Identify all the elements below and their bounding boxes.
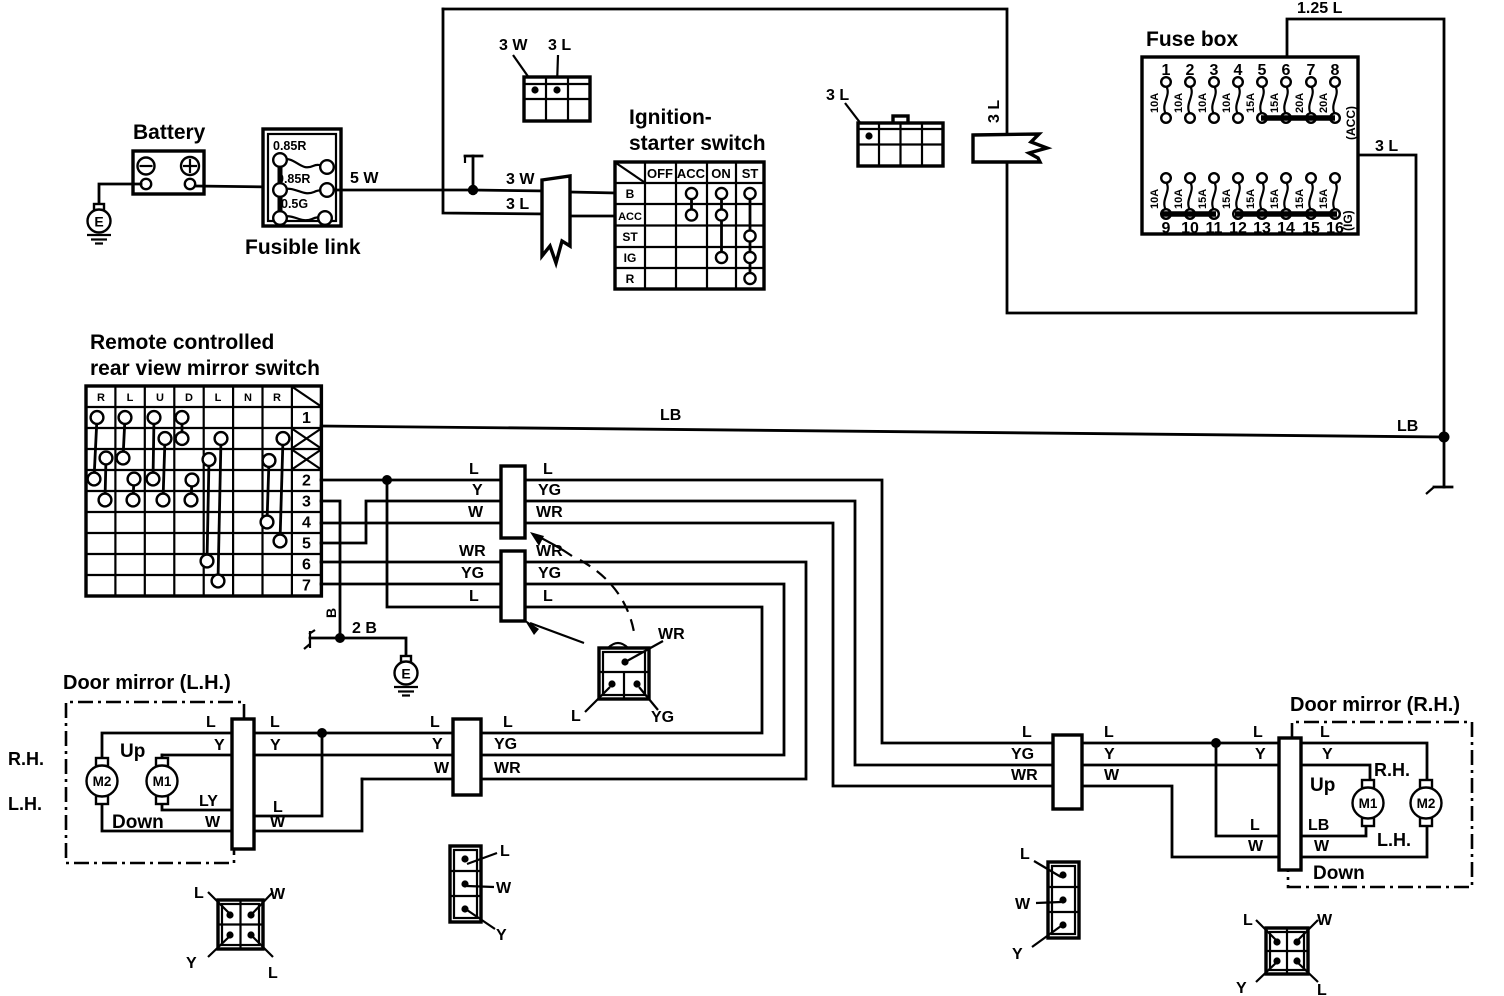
remote controlled rear view mirror switch bbox=[86, 331, 321, 596]
svg-text:Y: Y bbox=[1255, 746, 1266, 763]
motor M2 LH bbox=[87, 758, 118, 804]
svg-text:W: W bbox=[1317, 912, 1333, 929]
svg-text:10A: 10A bbox=[1149, 189, 1161, 209]
svg-text:9: 9 bbox=[1162, 220, 1171, 237]
svg-text:rear view mirror switch: rear view mirror switch bbox=[90, 357, 320, 380]
svg-text:LB: LB bbox=[660, 407, 681, 424]
svg-text:Y: Y bbox=[472, 482, 483, 499]
svg-text:YG: YG bbox=[538, 482, 561, 499]
svg-text:3 W: 3 W bbox=[499, 37, 528, 54]
annotation arrow to lower connector bbox=[524, 619, 584, 643]
wire 1.25L bbox=[1287, 0, 1444, 432]
svg-text:3 L: 3 L bbox=[826, 87, 849, 104]
svg-text:Y: Y bbox=[270, 737, 281, 754]
svg-text:L: L bbox=[270, 714, 280, 731]
door mirror LH enclosure bbox=[8, 672, 244, 863]
svg-text:20A: 20A bbox=[1294, 93, 1306, 113]
svg-text:L: L bbox=[469, 588, 479, 605]
wire battery positive to fusible link bbox=[196, 186, 272, 187]
labels Up/Down RH bbox=[1310, 775, 1365, 884]
svg-text:ON: ON bbox=[711, 166, 731, 181]
svg-text:15: 15 bbox=[1302, 220, 1320, 237]
svg-text:L: L bbox=[1020, 846, 1030, 863]
svg-text:15A: 15A bbox=[1245, 93, 1257, 113]
wire L run to RH mirror bbox=[525, 461, 1427, 780]
junction 5W/3W bbox=[468, 185, 478, 195]
svg-text:L: L bbox=[127, 392, 134, 404]
terminator (to body harness) bbox=[1426, 437, 1452, 494]
connector face view RH door L/W/Y/L bbox=[1236, 912, 1333, 996]
wire YG pin7 bbox=[321, 565, 501, 584]
fuse box bbox=[1142, 28, 1358, 237]
wire battery negative to ground bbox=[99, 184, 141, 204]
svg-text:1.25 L: 1.25 L bbox=[1297, 0, 1343, 17]
ground E (switch) bbox=[394, 656, 418, 696]
svg-text:LB: LB bbox=[1397, 418, 1418, 435]
wire 5W bbox=[334, 170, 473, 190]
wire 3L from top bus bbox=[443, 9, 548, 214]
svg-text:L: L bbox=[194, 885, 204, 902]
wire Y M1 LH up bbox=[162, 714, 225, 760]
svg-text:L: L bbox=[543, 461, 553, 478]
annotation arrow to upper connector bbox=[530, 532, 572, 556]
motor M1 LH bbox=[147, 758, 178, 804]
wire L pin2 (to both connectors) bbox=[321, 461, 501, 607]
svg-text:OFF: OFF bbox=[647, 166, 673, 181]
wire L run to LH mirror bbox=[102, 588, 762, 758]
ignition-starter switch bbox=[615, 106, 766, 289]
labels RH bar right bbox=[1308, 724, 1333, 855]
connector switch lower bbox=[501, 551, 525, 621]
svg-text:M2: M2 bbox=[1417, 796, 1436, 811]
svg-text:ACC: ACC bbox=[677, 166, 706, 181]
connector 6-pin 3W/3L bbox=[499, 37, 590, 121]
svg-text:12: 12 bbox=[1229, 220, 1247, 237]
svg-text:ST: ST bbox=[622, 230, 638, 244]
svg-text:Y: Y bbox=[432, 736, 443, 753]
connector mid-bottom inline bbox=[1053, 735, 1082, 809]
svg-text:14: 14 bbox=[1277, 220, 1295, 237]
svg-text:R: R bbox=[626, 272, 635, 286]
tap stub bbox=[465, 156, 482, 190]
svg-text:Up: Up bbox=[120, 741, 145, 762]
svg-text:3 L: 3 L bbox=[548, 37, 571, 54]
svg-text:15A: 15A bbox=[1269, 93, 1281, 113]
svg-text:Down: Down bbox=[1313, 863, 1365, 884]
svg-text:E: E bbox=[94, 214, 103, 230]
wire 3W bbox=[473, 171, 548, 191]
svg-text:2 B: 2 B bbox=[352, 620, 377, 637]
wire WR run to RH mirror bbox=[525, 504, 1427, 857]
svg-text:4: 4 bbox=[302, 515, 311, 532]
svg-text:E: E bbox=[401, 666, 410, 682]
svg-text:L: L bbox=[571, 708, 581, 725]
svg-text:3 W: 3 W bbox=[506, 171, 535, 188]
svg-text:Door mirror (L.H.): Door mirror (L.H.) bbox=[63, 672, 231, 694]
svg-text:15A: 15A bbox=[1245, 189, 1257, 209]
svg-text:ACC: ACC bbox=[618, 211, 642, 223]
svg-text:Y: Y bbox=[186, 955, 197, 972]
svg-text:11: 11 bbox=[1206, 220, 1223, 237]
svg-text:Y: Y bbox=[1236, 980, 1247, 996]
svg-text:10A: 10A bbox=[1149, 93, 1161, 113]
junction L at RH mirror bbox=[1211, 738, 1366, 836]
svg-text:Y: Y bbox=[1322, 746, 1333, 763]
svg-text:YG: YG bbox=[651, 709, 674, 726]
svg-text:W: W bbox=[1248, 838, 1264, 855]
wire W LH right jog bbox=[254, 779, 362, 831]
svg-text:Battery: Battery bbox=[133, 121, 206, 144]
svg-text:N: N bbox=[244, 392, 252, 404]
svg-text:R: R bbox=[97, 392, 105, 404]
fusible link bbox=[245, 129, 361, 259]
svg-text:L: L bbox=[503, 714, 513, 731]
svg-text:W: W bbox=[434, 760, 450, 777]
svg-text:15A: 15A bbox=[1318, 189, 1330, 209]
svg-text:Y: Y bbox=[496, 927, 507, 944]
svg-text:5: 5 bbox=[302, 536, 311, 553]
svg-text:Door mirror (R.H.): Door mirror (R.H.) bbox=[1290, 694, 1460, 716]
svg-text:Y: Y bbox=[214, 737, 225, 754]
connector RH mirror bar bbox=[1279, 738, 1301, 870]
connector face view LH mirror L/W/Y bbox=[450, 843, 512, 944]
svg-text:L: L bbox=[430, 714, 440, 731]
svg-text:L: L bbox=[273, 799, 283, 816]
connector pass-through (harness) bbox=[542, 176, 570, 263]
svg-text:WR: WR bbox=[494, 760, 521, 777]
svg-text:M2: M2 bbox=[93, 774, 112, 789]
svg-text:L: L bbox=[1317, 982, 1327, 996]
svg-text:W: W bbox=[205, 814, 221, 831]
svg-text:M1: M1 bbox=[1359, 796, 1378, 811]
svg-text:1: 1 bbox=[302, 410, 311, 427]
svg-text:10A: 10A bbox=[1173, 93, 1185, 113]
wire WR run to LH mirror bbox=[362, 543, 806, 779]
labels RH bar left bbox=[1248, 724, 1266, 855]
wire LY M1 LH down bbox=[162, 793, 232, 810]
wire W M2 LH down bbox=[102, 802, 232, 831]
svg-text:WR: WR bbox=[536, 504, 563, 521]
labels Up/Down LH bbox=[112, 741, 164, 833]
wire 3L fuse box feed bbox=[1007, 119, 1416, 313]
svg-text:L: L bbox=[215, 392, 222, 404]
svg-text:L: L bbox=[543, 588, 553, 605]
svg-text:IG: IG bbox=[624, 251, 637, 265]
motor M2 RH bbox=[1411, 780, 1442, 826]
svg-text:3 L: 3 L bbox=[506, 196, 529, 213]
svg-text:L: L bbox=[1104, 724, 1114, 741]
svg-text:20A: 20A bbox=[1318, 93, 1330, 113]
wire L second LH bbox=[254, 714, 327, 816]
wire top bus to 3L connector bbox=[443, 9, 1007, 134]
svg-text:ST: ST bbox=[742, 166, 759, 181]
wire B pin3 to ground bbox=[304, 501, 406, 656]
svg-text:2: 2 bbox=[302, 473, 311, 490]
svg-text:W: W bbox=[468, 504, 484, 521]
svg-text:Ignition-: Ignition- bbox=[629, 106, 712, 129]
svg-text:Fusible link: Fusible link bbox=[245, 236, 361, 259]
svg-text:L: L bbox=[1250, 817, 1260, 834]
svg-text:WR: WR bbox=[459, 543, 486, 560]
svg-text:10A: 10A bbox=[1221, 93, 1233, 113]
svg-text:W: W bbox=[270, 886, 286, 903]
wire YG run to LH mirror bbox=[162, 565, 784, 755]
svg-text:L: L bbox=[206, 714, 216, 731]
svg-text:0.5G: 0.5G bbox=[281, 197, 308, 211]
annotation dashed arc bbox=[580, 560, 634, 632]
svg-text:Remote controlled: Remote controlled bbox=[90, 331, 274, 354]
svg-text:LY: LY bbox=[199, 793, 218, 810]
door mirror RH enclosure bbox=[1288, 694, 1472, 887]
wire 3W to ignition B bbox=[570, 192, 615, 193]
svg-text:(ACC): (ACC) bbox=[1344, 106, 1358, 140]
svg-text:R.H.: R.H. bbox=[8, 749, 44, 769]
connector face view LH door L/W/Y/L bbox=[186, 885, 286, 982]
svg-text:L: L bbox=[1022, 724, 1032, 741]
svg-text:3 L: 3 L bbox=[1375, 138, 1398, 155]
svg-text:L: L bbox=[268, 965, 278, 982]
svg-text:15A: 15A bbox=[1269, 189, 1281, 209]
svg-text:B: B bbox=[626, 187, 635, 201]
svg-text:L: L bbox=[1243, 912, 1253, 929]
svg-text:3: 3 bbox=[302, 494, 311, 511]
connector LH inline bbox=[453, 719, 481, 795]
connector LH mirror bar bbox=[232, 719, 254, 849]
svg-text:YG: YG bbox=[538, 565, 561, 582]
svg-text:L.H.: L.H. bbox=[8, 794, 42, 814]
svg-text:5 W: 5 W bbox=[350, 170, 379, 187]
svg-text:L.H.: L.H. bbox=[1377, 830, 1411, 850]
svg-text:15A: 15A bbox=[1221, 189, 1233, 209]
svg-text:WR: WR bbox=[536, 543, 563, 560]
svg-text:W: W bbox=[1314, 838, 1330, 855]
wire LB pin1 bbox=[321, 407, 1444, 437]
connector to other harness 3L bbox=[973, 100, 1047, 162]
svg-text:L: L bbox=[1320, 724, 1330, 741]
connector 8-pin 3L bbox=[826, 87, 943, 166]
svg-text:(IG): (IG) bbox=[1341, 210, 1355, 231]
svg-text:L: L bbox=[500, 843, 510, 860]
svg-text:WR: WR bbox=[658, 626, 685, 643]
battery bbox=[133, 121, 206, 194]
svg-text:LB: LB bbox=[1308, 817, 1329, 834]
junction LB / 1.25L bbox=[1439, 432, 1450, 443]
svg-text:7: 7 bbox=[302, 578, 311, 595]
svg-text:0.85R: 0.85R bbox=[273, 139, 306, 153]
svg-text:YG: YG bbox=[461, 565, 484, 582]
svg-text:W: W bbox=[1104, 767, 1120, 784]
svg-text:W: W bbox=[1015, 896, 1031, 913]
svg-text:R.H.: R.H. bbox=[1374, 760, 1410, 780]
svg-text:L: L bbox=[469, 461, 479, 478]
wire W pin4 bbox=[321, 504, 501, 523]
wire YG run to RH mirror bbox=[525, 482, 1370, 780]
connector switch upper bbox=[501, 466, 525, 538]
svg-text:13: 13 bbox=[1253, 220, 1271, 237]
svg-text:15A: 15A bbox=[1197, 189, 1209, 209]
svg-text:YG: YG bbox=[1011, 746, 1034, 763]
svg-text:WR: WR bbox=[1011, 767, 1038, 784]
svg-text:3 L: 3 L bbox=[986, 100, 1003, 123]
connector face view RH mirror L/W/Y bbox=[1012, 846, 1079, 963]
svg-text:U: U bbox=[156, 392, 164, 404]
svg-text:B: B bbox=[323, 608, 339, 618]
svg-text:6: 6 bbox=[302, 557, 311, 574]
motor M1 RH bbox=[1353, 780, 1384, 826]
svg-text:R: R bbox=[273, 392, 281, 404]
svg-text:Down: Down bbox=[112, 812, 164, 833]
ground E (battery) bbox=[87, 204, 111, 244]
svg-text:10A: 10A bbox=[1173, 189, 1185, 209]
svg-text:15A: 15A bbox=[1294, 189, 1306, 209]
wire 3L to ignition ACC bbox=[570, 215, 615, 218]
svg-text:Fuse box: Fuse box bbox=[1146, 28, 1239, 51]
svg-text:10: 10 bbox=[1181, 220, 1199, 237]
svg-text:starter switch: starter switch bbox=[629, 132, 766, 155]
svg-text:10A: 10A bbox=[1197, 93, 1209, 113]
wire WR pin6 bbox=[321, 543, 501, 562]
svg-text:YG: YG bbox=[494, 736, 517, 753]
svg-text:D: D bbox=[185, 392, 193, 404]
svg-text:M1: M1 bbox=[153, 774, 172, 789]
svg-text:L: L bbox=[1253, 724, 1263, 741]
svg-text:Y: Y bbox=[1104, 746, 1115, 763]
svg-text:W: W bbox=[496, 880, 512, 897]
svg-text:Y: Y bbox=[1012, 946, 1023, 963]
wire Y pin5 bbox=[321, 482, 501, 543]
connector face view (switch harness) WR/L/YG bbox=[571, 626, 685, 726]
svg-text:Up: Up bbox=[1310, 775, 1335, 796]
